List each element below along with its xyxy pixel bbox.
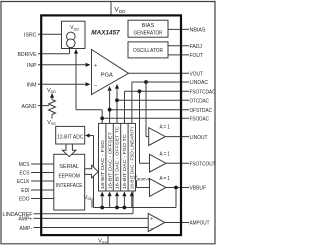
svg-text:FOUT: FOUT (190, 53, 204, 59)
svg-text:ECLK: ECLK (17, 179, 30, 185)
svg-text:BIAS: BIAS (142, 23, 155, 29)
svg-text:FSOTCOUT: FSOTCOUT (190, 161, 216, 167)
svg-text:–: – (150, 225, 153, 231)
svg-text:GENERATOR: GENERATOR (134, 30, 163, 36)
svg-text:AGND: AGND (22, 104, 37, 110)
svg-text:ISRC: ISRC (24, 33, 37, 39)
svg-text:A = 1: A = 1 (159, 152, 170, 158)
svg-text:16-BIT DAC - FSO TC: 16-BIT DAC - FSO TC (122, 134, 127, 189)
svg-text:+: + (94, 63, 97, 69)
svg-text:ECS: ECS (20, 171, 30, 177)
svg-text:BDRIVE: BDRIVE (18, 52, 37, 58)
svg-text:+: + (150, 217, 153, 223)
svg-text:AMP+: AMP+ (19, 217, 33, 223)
svg-text:INP: INP (27, 63, 37, 69)
svg-text:EDO: EDO (19, 197, 30, 203)
svg-text:INM: INM (27, 83, 37, 89)
svg-text:MCS: MCS (19, 162, 30, 168)
svg-text:A = 1: A = 1 (159, 176, 170, 182)
svg-text:A = 1: A = 1 (159, 125, 170, 131)
svg-text:NBIAS: NBIAS (190, 28, 206, 34)
svg-text:FADJ: FADJ (190, 44, 203, 50)
svg-text:LINOUT: LINOUT (190, 135, 208, 141)
svg-text:INTERFACE: INTERFACE (56, 183, 83, 189)
svg-text:OSCILLATOR: OSCILLATOR (133, 48, 163, 54)
svg-text:16-BIT DAC - FSO: 16-BIT DAC - FSO (100, 139, 105, 189)
svg-text:VOUT: VOUT (190, 72, 204, 78)
svg-text:LINDAC: LINDAC (190, 80, 209, 86)
svg-text:MAX1457: MAX1457 (91, 30, 120, 37)
svg-text:VBBUF: VBBUF (190, 186, 207, 192)
svg-text:AMP-: AMP- (20, 226, 33, 232)
svg-text:OTCDAC: OTCDAC (190, 99, 210, 105)
svg-text:16-BIT DAC - OFFSET: 16-BIT DAC - OFFSET (107, 132, 112, 189)
svg-text:EEPROM: EEPROM (58, 174, 80, 180)
svg-text:12-BIT ADC: 12-BIT ADC (57, 135, 84, 141)
svg-text:PGA: PGA (101, 73, 113, 79)
svg-text:FSODAC: FSODAC (190, 117, 210, 123)
svg-text:FSOTCDAC: FSOTCDAC (190, 89, 216, 95)
svg-text:AMPOUT: AMPOUT (190, 221, 210, 227)
svg-text:SERIAL: SERIAL (59, 164, 79, 170)
svg-text:16-BIT DAC - OFFSET TC: 16-BIT DAC - OFFSET TC (115, 126, 120, 189)
svg-text:EDI: EDI (21, 188, 30, 194)
svg-text:OFSTDAC: OFSTDAC (190, 108, 213, 114)
svg-text:16-BIT DAC - FSO LINEARITY: 16-BIT DAC - FSO LINEARITY (130, 126, 135, 189)
